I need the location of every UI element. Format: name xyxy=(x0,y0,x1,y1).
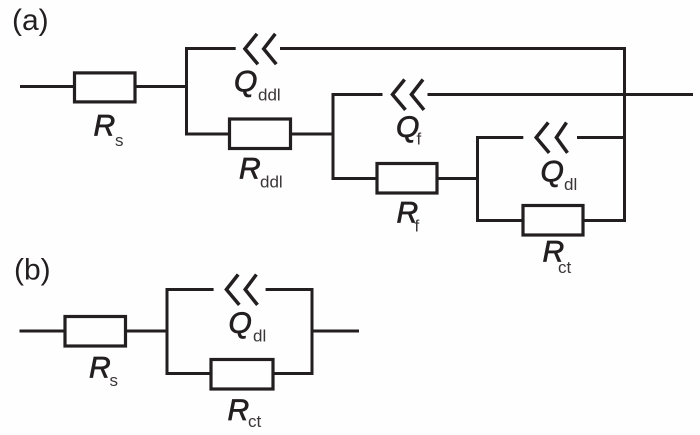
wire right vertical of parallel (b) xyxy=(311,288,314,375)
wire Rct branch left stub (b) xyxy=(166,372,212,375)
wire input terminal (a) xyxy=(20,85,74,88)
wire Rct to right vertical (b) xyxy=(273,372,314,375)
wire Qddl branch left stub xyxy=(185,47,236,50)
wire Rf branch left stub xyxy=(332,177,378,180)
wire left vertical of parallel (b) xyxy=(166,288,169,375)
wire Qdl branch left stub (b) xyxy=(166,288,214,291)
svg-text:ddl: ddl xyxy=(258,86,281,105)
capacitor C4 Qdl CPE chevrons (b) xyxy=(226,275,257,305)
svg-text:dl: dl xyxy=(253,327,266,346)
resistor R3 Rf xyxy=(377,164,437,194)
svg-text:(b): (b) xyxy=(14,254,51,287)
svg-text:R: R xyxy=(228,394,250,427)
svg-text:Q: Q xyxy=(541,156,564,189)
wire Rct branch left stub (a) xyxy=(476,219,523,222)
wire output terminal (b) xyxy=(312,330,359,333)
svg-text:s: s xyxy=(115,131,124,150)
resistor R4 Rct (a) xyxy=(523,206,583,236)
resistor R6 Rct (b) xyxy=(211,360,273,390)
svg-text:(a): (a) xyxy=(12,4,49,37)
wire Rf to node C xyxy=(437,177,479,180)
resistor R2 Rddl xyxy=(230,119,291,149)
wire Qf branch right segment to output xyxy=(428,93,694,96)
wire Rs to node A xyxy=(136,85,188,88)
svg-text:R: R xyxy=(89,352,111,385)
resistor R1 Rs (a) xyxy=(75,73,136,102)
wire Qdl branch left stub (a) xyxy=(476,136,523,139)
svg-text:ct: ct xyxy=(558,258,572,277)
svg-text:s: s xyxy=(110,371,119,390)
svg-text:f: f xyxy=(417,130,422,149)
svg-text:f: f xyxy=(415,217,420,236)
wire left vertical of outer parallel (a) xyxy=(185,47,188,136)
wire Rs to left node (b) xyxy=(126,330,169,333)
svg-text:dl: dl xyxy=(564,175,577,194)
wire input terminal (b) xyxy=(20,330,66,333)
svg-text:Q: Q xyxy=(234,66,257,99)
wire Qdl branch right stub (a) xyxy=(577,136,626,139)
resistor R5 Rs (b) xyxy=(65,317,126,347)
wire left vertical of third parallel (a) xyxy=(476,136,479,222)
wire left vertical of second parallel (a) xyxy=(332,93,335,180)
wire Qf branch left stub xyxy=(332,93,383,96)
capacitor C2 Qf CPE chevrons xyxy=(393,80,425,110)
svg-text:R: R xyxy=(239,153,261,186)
svg-text:Q: Q xyxy=(229,307,252,340)
svg-text:ct: ct xyxy=(248,412,262,431)
capacitor C3 Qdl CPE chevrons (a) xyxy=(536,123,567,153)
wire Rddl branch left stub xyxy=(185,133,230,136)
wire Rddl to node B xyxy=(291,133,335,136)
svg-text:R: R xyxy=(94,110,116,143)
capacitor C1 Qddl CPE chevrons xyxy=(245,34,276,64)
wire Rct to right vertical (a) xyxy=(583,219,626,222)
wire right vertical common node (a) xyxy=(623,47,626,222)
svg-text:ddl: ddl xyxy=(260,173,283,192)
wire Qddl branch right segment xyxy=(280,47,626,50)
wire Qdl branch right stub (b) xyxy=(266,288,314,291)
